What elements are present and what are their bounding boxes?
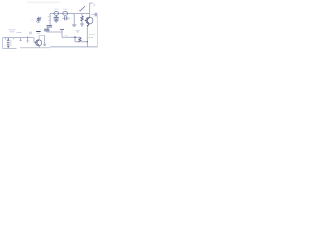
emitter arrow — [87, 25, 89, 27]
wire top rail — [50, 13, 90, 15]
VCC arrow tick — [90, 2, 93, 4]
inductor L2 coil — [7, 38, 10, 49]
tick marks on branch — [48, 17, 50, 21]
label smudge right-mid — [89, 34, 95, 36]
small tick T0 — [4, 38, 6, 40]
collector wire — [89, 14, 91, 18]
wire link — [47, 27, 49, 29]
wire stubs C7 — [62, 17, 69, 19]
wire to load — [96, 15, 98, 47]
transistor Q1 — [86, 17, 93, 24]
junction node B — [87, 41, 88, 42]
trimmer capacitor CT1 — [37, 17, 41, 22]
resistor wire right of Q2 — [44, 36, 46, 44]
resistor R2 — [79, 38, 81, 42]
lower mid rail — [62, 36, 80, 38]
junction node A — [74, 36, 76, 38]
Q2 collector stem — [39, 36, 45, 40]
wire to bottom rail — [86, 42, 88, 47]
resistor R1 — [81, 14, 83, 17]
bottom rail right — [50, 46, 97, 48]
wire bottom link — [75, 41, 87, 43]
small cap tick T2 — [27, 36, 29, 42]
ground G4 — [43, 44, 46, 45]
transformer core lines — [10, 40, 12, 46]
label smudge top-right — [93, 4, 95, 6]
wire down from node — [74, 37, 76, 42]
capacitor C6 to ground — [54, 16, 59, 21]
input wire — [3, 37, 34, 39]
dark dash D1 — [36, 31, 40, 33]
wire — [47, 31, 62, 32]
transistor Q2 base corner — [34, 38, 37, 43]
wire branch mid-right — [73, 14, 75, 25]
ground G1 — [54, 21, 58, 23]
capacitor C2 label smudge — [63, 8, 68, 10]
output stub — [92, 14, 96, 16]
trimmer arrow — [36, 17, 41, 22]
wire branch left — [49, 14, 51, 26]
small cap tick T1 — [20, 38, 22, 41]
Q2 emitter to rail — [38, 45, 40, 47]
small tick T0b — [13, 38, 15, 40]
output capacitor C8 plates — [95, 13, 97, 17]
VCC supply line — [89, 3, 91, 14]
dashed net right — [89, 37, 94, 39]
capacitor C1 label smudge — [54, 8, 59, 10]
capacitor C4 plates — [44, 29, 49, 31]
label L1 diagonal — [79, 6, 85, 11]
light top border streak — [27, 1, 60, 3]
wire vertical to lower rail — [61, 30, 63, 38]
label smudge mid-left — [9, 30, 22, 33]
ground G3 — [80, 24, 84, 26]
inline choke B1 on rail — [54, 12, 59, 16]
capacitor C7 vertical plates — [65, 16, 67, 20]
emitter wire down — [86, 26, 88, 42]
capacitor C3 plates — [47, 26, 52, 28]
component bars mid — [30, 32, 31, 35]
bottom rail mid — [20, 47, 50, 49]
small mark near emitter — [76, 31, 80, 32]
inline choke B2 on rail — [63, 12, 68, 16]
ground under trimmer — [37, 22, 39, 24]
bottom rail left — [3, 48, 17, 50]
light dash D2 — [37, 32, 40, 34]
wire — [81, 21, 83, 24]
input left vertical — [2, 38, 4, 49]
label smudge left of trimmer — [31, 19, 34, 21]
label smudge above node — [65, 35, 69, 37]
ground G2 — [72, 25, 76, 26]
transistor Q2 — [36, 40, 42, 46]
capacitor C5 plate — [60, 29, 64, 31]
